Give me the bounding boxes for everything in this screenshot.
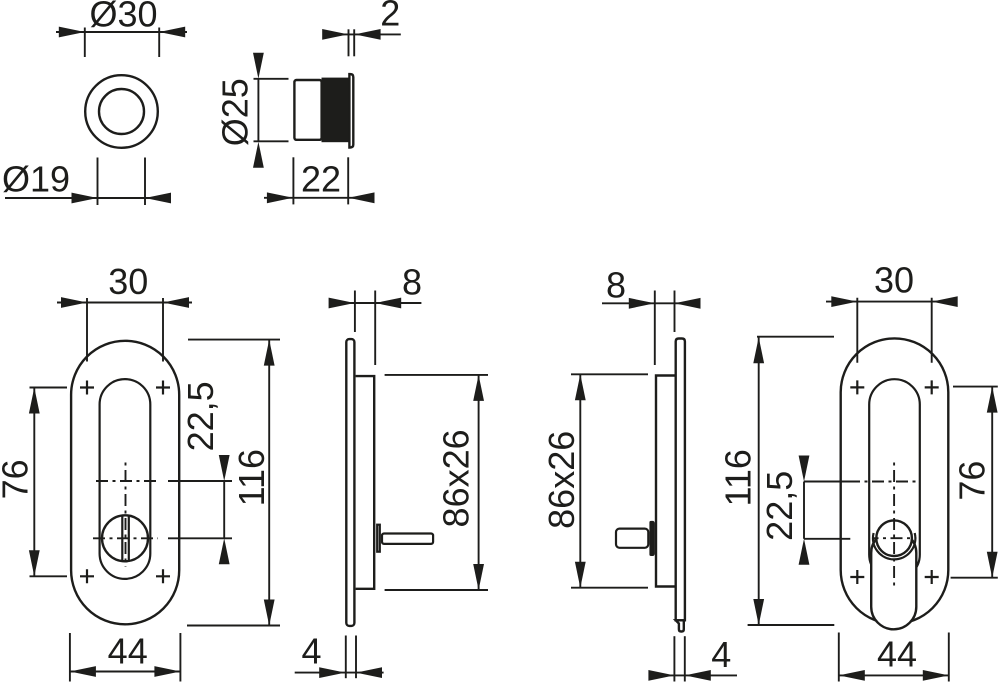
- arrow left 8: [629, 298, 655, 309]
- arrow top Ø25: [253, 53, 264, 79]
- arrow left 22: [267, 192, 293, 203]
- arrow right 22: [349, 192, 375, 203]
- ext line left 8: [354, 291, 356, 333]
- ext line right 22: [347, 157, 349, 204]
- arrow right Ø30: [159, 27, 185, 38]
- ext line bottom 86x26: [571, 587, 648, 589]
- ext line left Ø30: [84, 28, 86, 58]
- arrow top 76: [29, 388, 40, 414]
- ext line right Ø30: [158, 28, 160, 58]
- arrow bottom 116: [264, 600, 275, 626]
- flange lip: [349, 74, 353, 147]
- ext line left 8: [654, 291, 656, 366]
- dim line 22,5: [803, 482, 805, 539]
- ext line top 22,5: [168, 480, 232, 482]
- svg-text:76: 76: [952, 461, 993, 501]
- ext line bottom 86x26: [385, 589, 488, 591]
- ext line top Ø25: [254, 78, 289, 80]
- svg-text:76: 76: [0, 459, 36, 499]
- arrow left Ø19: [72, 193, 98, 204]
- dim line 116: [268, 340, 270, 626]
- arrow top 116: [753, 337, 764, 363]
- arrow bottom 22,5: [799, 539, 810, 565]
- svg-text:4: 4: [711, 634, 731, 675]
- ext line left 22: [292, 157, 294, 204]
- arrow right 44: [154, 666, 180, 677]
- screw mark bottom-right: [925, 570, 939, 584]
- arrow bottom 76: [29, 550, 40, 576]
- svg-text:22: 22: [301, 159, 341, 200]
- inner oval recess: [869, 379, 920, 580]
- key slot line left: [121, 515, 123, 562]
- dim line 76: [33, 388, 35, 577]
- knob collar (filled): [649, 521, 655, 556]
- ext line left 30: [86, 298, 88, 362]
- svg-text:30: 30: [108, 261, 148, 302]
- svg-text:Ø30: Ø30: [89, 0, 157, 35]
- arrow right 30: [163, 297, 189, 308]
- inner oval recess: [100, 379, 151, 579]
- ext line bottom 116: [748, 624, 835, 626]
- arrow right 4: [685, 670, 711, 681]
- dim line 30: [826, 301, 958, 303]
- ext line top 76: [953, 386, 998, 388]
- thumbturn knob side view: [616, 529, 648, 548]
- ext line top 22,5: [804, 481, 850, 483]
- dim line 22,5: [223, 481, 225, 538]
- outer circle of round pull: [85, 75, 158, 148]
- svg-text:116: 116: [718, 449, 759, 506]
- dim line 86x26: [579, 374, 581, 587]
- screw mark top-left: [80, 381, 94, 395]
- svg-text:30: 30: [874, 260, 914, 301]
- horizontal centerline cylinder: [93, 537, 158, 539]
- ext line bottom 22,5: [168, 537, 232, 539]
- svg-text:22,5: 22,5: [759, 471, 800, 541]
- ext line right 30: [162, 298, 164, 362]
- arrow right 44: [923, 670, 949, 681]
- screw mark bottom-left: [850, 570, 864, 584]
- screw mark top-right: [156, 381, 170, 395]
- ext line left 4: [345, 636, 347, 679]
- arrow right Ø19: [145, 193, 171, 204]
- ext line right 8: [674, 291, 676, 333]
- ext line left 4: [673, 636, 675, 681]
- key slot line right: [128, 515, 130, 562]
- thumbturn circle: [876, 520, 912, 556]
- dim line 44: [70, 671, 180, 673]
- thumbturn ring arc: [873, 533, 915, 559]
- face plate: [346, 339, 354, 626]
- screw mark bottom-left: [80, 569, 94, 583]
- spindle collar: [377, 525, 380, 552]
- ext line right 44: [948, 633, 950, 682]
- arrow top 76: [987, 387, 998, 413]
- arrow left 4: [319, 667, 345, 678]
- ext line top 116: [188, 339, 280, 341]
- thumbturn grip capsule: [871, 531, 916, 630]
- arrow bottom 76: [987, 552, 998, 578]
- horizontal centerline thumbturn: [873, 537, 917, 539]
- arrow left 4: [648, 670, 674, 681]
- plate bottom tab: [676, 620, 684, 631]
- arrow right 4: [356, 667, 382, 678]
- arrow left 44: [70, 666, 96, 677]
- ext line left 44: [838, 633, 840, 682]
- spindle bar: [382, 534, 433, 544]
- svg-text:2: 2: [380, 0, 400, 34]
- svg-text:44: 44: [108, 630, 148, 671]
- dim line Ø25: [257, 79, 259, 142]
- dim line 4: [649, 674, 738, 676]
- arrow top 116: [264, 340, 275, 366]
- ext line right 4: [684, 636, 686, 681]
- arrow right 8: [675, 298, 701, 309]
- screw mark top-left: [850, 380, 864, 394]
- dim line 4: [295, 672, 384, 674]
- arrow bottom 86x26: [473, 564, 484, 590]
- arrow bottom Ø25: [253, 142, 264, 168]
- recess box: [656, 376, 675, 587]
- cylinder circle: [102, 515, 148, 561]
- ext line top 86x26: [385, 374, 488, 376]
- ext line bottom 22,5: [804, 538, 850, 540]
- ext line right 4: [355, 636, 357, 679]
- svg-text:8: 8: [402, 262, 422, 303]
- screw mark bottom-right: [156, 569, 170, 583]
- inner circle (recess): [99, 89, 144, 134]
- dim line 8: [602, 302, 700, 304]
- arrow top 22,5: [219, 455, 230, 481]
- arrow left 8: [329, 298, 355, 309]
- arrow left 30: [61, 297, 87, 308]
- arrow left 44: [839, 670, 865, 681]
- svg-text:22,5: 22,5: [180, 381, 221, 451]
- arrow right 8: [375, 298, 401, 309]
- cylinder body outline: [294, 80, 321, 140]
- arrow top 22,5: [799, 456, 810, 482]
- dim line 8: [330, 302, 422, 304]
- ext line right 8: [374, 291, 376, 366]
- svg-text:86x26: 86x26: [541, 431, 582, 529]
- ext line right 30: [931, 298, 933, 363]
- arrow left 30: [831, 296, 857, 307]
- outer oval plate: [841, 338, 949, 623]
- svg-text:4: 4: [301, 630, 321, 671]
- ext line left 2: [348, 29, 350, 56]
- dim line Ø30: [56, 31, 187, 33]
- ext line top 116: [757, 336, 834, 338]
- recess box: [356, 376, 375, 589]
- svg-text:Ø19: Ø19: [2, 159, 70, 200]
- svg-text:44: 44: [877, 634, 917, 675]
- vertical centerline: [893, 460, 895, 586]
- arrow right 2: [355, 29, 381, 40]
- ext line left 30: [856, 298, 858, 363]
- face plate: [676, 339, 685, 621]
- arrow top 86x26: [473, 375, 484, 401]
- horizontal centerline plate middle: [848, 481, 919, 483]
- arrow bottom 86x26: [575, 562, 586, 588]
- ext line right 2: [353, 29, 355, 56]
- ext line right 44: [179, 633, 181, 682]
- arrow bottom 116: [753, 599, 764, 625]
- svg-text:Ø25: Ø25: [215, 78, 256, 146]
- arrow bottom 22,5: [219, 538, 230, 564]
- horizontal centerline plate middle: [96, 480, 156, 482]
- vertical centerline: [125, 462, 127, 567]
- ext line left Ø19: [97, 158, 99, 206]
- dim line 2: [324, 33, 401, 35]
- ext line bottom 76: [951, 577, 998, 579]
- dim line 116: [758, 337, 760, 625]
- dim line 30: [57, 302, 192, 304]
- svg-text:86x26: 86x26: [435, 429, 476, 527]
- arrow left Ø30: [59, 27, 85, 38]
- ext line bottom 116: [187, 625, 280, 627]
- svg-text:116: 116: [231, 449, 272, 506]
- ext line top 86x26: [571, 373, 648, 375]
- dim line 22: [264, 197, 375, 199]
- ext line bottom Ø25: [254, 140, 289, 142]
- arrow right 30: [932, 296, 958, 307]
- outer oval plate: [71, 341, 179, 625]
- ext line right Ø19: [144, 158, 146, 206]
- arrow top 86x26: [575, 374, 586, 400]
- arrow left 2: [322, 29, 348, 40]
- ext line top 76: [30, 387, 68, 389]
- dim line 44: [839, 674, 949, 676]
- black section band: [322, 78, 350, 143]
- dim line 86x26: [478, 375, 480, 590]
- ext line bottom 76: [30, 575, 68, 577]
- ext line left 44: [69, 633, 71, 682]
- screw mark top-right: [925, 380, 939, 394]
- svg-text:8: 8: [606, 264, 626, 305]
- dim line Ø19: [5, 197, 171, 199]
- dim line 76: [991, 387, 993, 578]
